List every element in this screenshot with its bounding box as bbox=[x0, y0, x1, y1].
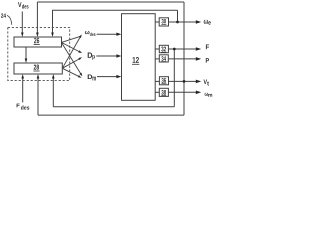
box 12 bbox=[122, 14, 156, 101]
arrowhead fan 28 Dm bbox=[78, 75, 82, 78]
leader curve for 24 bbox=[7, 15, 12, 25]
wire box12 to box36 bbox=[155, 80, 159, 82]
wire omega_des to box12 bbox=[97, 33, 118, 35]
wire vertical x184 V_t feedback bbox=[183, 2, 185, 115]
arrowhead P output bbox=[196, 57, 201, 61]
wire top feedback y=2 bbox=[37, 1, 184, 3]
arrowhead F output bbox=[196, 47, 201, 51]
arrowhead fan 26 Dp bbox=[78, 50, 82, 53]
wire box12 to box34 bbox=[155, 58, 159, 60]
wire down into box 26 from y10.3 line bbox=[52, 10, 54, 34]
arrowhead Dm into box12 bbox=[116, 75, 121, 78]
arrowhead box26 to box28 bbox=[25, 59, 28, 64]
box12 number bbox=[133, 57, 139, 63]
label D_m sub bbox=[93, 77, 96, 81]
box 26 bbox=[14, 37, 62, 47]
label D_m bbox=[88, 75, 93, 80]
arrowhead into box28 F_des bbox=[21, 74, 24, 79]
arrowhead fan 28 Dp bbox=[78, 57, 82, 60]
wire box26 to box28 bbox=[25, 47, 27, 60]
junction dot omega_e bbox=[176, 21, 179, 24]
wire F output bbox=[168, 48, 197, 50]
fan wire 28 to Dp bbox=[62, 59, 79, 68]
box 30 bbox=[159, 18, 168, 26]
arrowhead fan 26 Dm bbox=[79, 73, 82, 77]
wire Vt output bbox=[168, 80, 197, 82]
wire down into box 26 from top line bbox=[36, 2, 38, 34]
arrowhead into box26 from y10.3 bbox=[51, 33, 54, 38]
wire box12 to box38 bbox=[155, 91, 159, 93]
junction dot F bbox=[173, 48, 176, 51]
label D_p sub bbox=[92, 55, 94, 60]
label omega_m sub bbox=[208, 94, 212, 97]
box34 number bbox=[161, 56, 166, 61]
box 32 bbox=[159, 45, 168, 52]
label D_p bbox=[88, 53, 93, 58]
label omega_m bbox=[205, 93, 209, 96]
wire omega_m output bbox=[168, 91, 197, 93]
fan wire 26 to omega_des bbox=[61, 36, 80, 42]
wire up into box 28 from y115.1 bbox=[37, 77, 39, 115]
box 36 bbox=[159, 77, 168, 85]
label V_t sub bbox=[207, 82, 209, 86]
arrowhead into box28 from y106.3 bbox=[52, 74, 55, 79]
label V_t bbox=[204, 80, 208, 85]
arrowhead into box26 from top line bbox=[36, 33, 39, 38]
label F_des sub bbox=[21, 105, 29, 109]
box 38 bbox=[159, 88, 168, 96]
label F out bbox=[206, 45, 209, 50]
label V_des sub bbox=[22, 4, 29, 8]
wire up into box 28 from y106.8 bbox=[52, 77, 54, 107]
dashed controller box 24 bbox=[8, 27, 70, 80]
wire Dm to box12 bbox=[97, 76, 118, 78]
wire feedback y=10.3 bbox=[52, 9, 177, 11]
box26 number bbox=[34, 38, 39, 44]
label omega_e sub bbox=[208, 21, 210, 24]
arrowhead Vt output bbox=[196, 80, 201, 84]
wire bottom feedback y=106.8 bbox=[53, 106, 174, 108]
box 28 bbox=[14, 63, 62, 74]
wire V_des input bbox=[21, 12, 23, 35]
arrowhead omega_e output bbox=[196, 20, 201, 24]
wire omega_e feedback up x177.5 bbox=[177, 10, 179, 22]
arrowhead into box26 V_des bbox=[21, 33, 24, 38]
wire P output bbox=[168, 58, 197, 60]
arrowhead omega_des into box12 bbox=[116, 33, 121, 36]
wire box12 to box30 bbox=[155, 21, 159, 23]
box36 number bbox=[162, 78, 167, 83]
label F_des bbox=[17, 104, 20, 108]
box32 number bbox=[161, 47, 166, 52]
box28 number bbox=[34, 65, 39, 70]
wire Dp to box12 bbox=[96, 55, 118, 57]
wire bottom feedback y=115.1 bbox=[38, 114, 184, 116]
wire F_des input up into box 28 bbox=[22, 77, 24, 103]
label V_des bbox=[18, 2, 22, 7]
label omega_des sub bbox=[90, 33, 96, 36]
fan wire 28 to Dm bbox=[62, 68, 78, 76]
wire F feedback down x174.3 bbox=[173, 49, 175, 107]
label omega_des bbox=[85, 31, 90, 34]
junction dot Vt bbox=[183, 80, 186, 83]
box 34 bbox=[159, 55, 168, 62]
label P out bbox=[206, 58, 209, 63]
label 24 bbox=[1, 13, 6, 17]
arrowhead omega_m output bbox=[196, 91, 201, 95]
arrowhead fan 28 omega_des bbox=[79, 34, 82, 38]
box30 number bbox=[162, 19, 167, 24]
fan wire 28 to omega_des bbox=[62, 37, 80, 68]
wire box12 to box32 bbox=[155, 48, 159, 50]
fan wire 26 to Dp bbox=[61, 42, 79, 51]
box38 number bbox=[161, 90, 166, 95]
arrowhead into box28 from y115 bbox=[37, 74, 40, 79]
arrowhead Dp into box12 bbox=[116, 54, 121, 57]
wire omega_e output bbox=[168, 21, 197, 23]
fan wire 26 to Dm bbox=[61, 42, 80, 73]
label omega_e bbox=[204, 20, 209, 24]
